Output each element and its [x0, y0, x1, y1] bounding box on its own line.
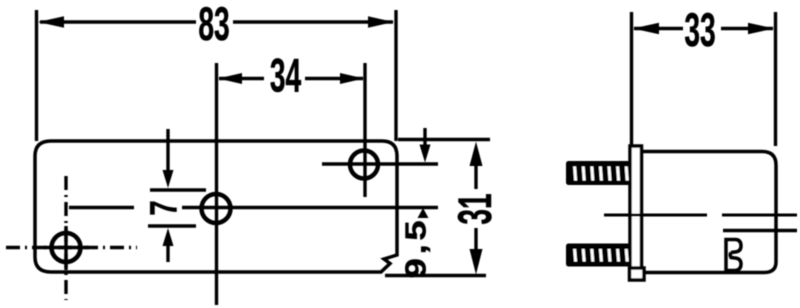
svg-text:9,5: 9,5 — [399, 217, 432, 279]
svg-text:34: 34 — [270, 50, 302, 102]
svg-text:31: 31 — [450, 193, 502, 224]
svg-text:33: 33 — [684, 5, 715, 57]
svg-text:7: 7 — [143, 200, 185, 215]
svg-text:83: 83 — [198, 0, 229, 51]
